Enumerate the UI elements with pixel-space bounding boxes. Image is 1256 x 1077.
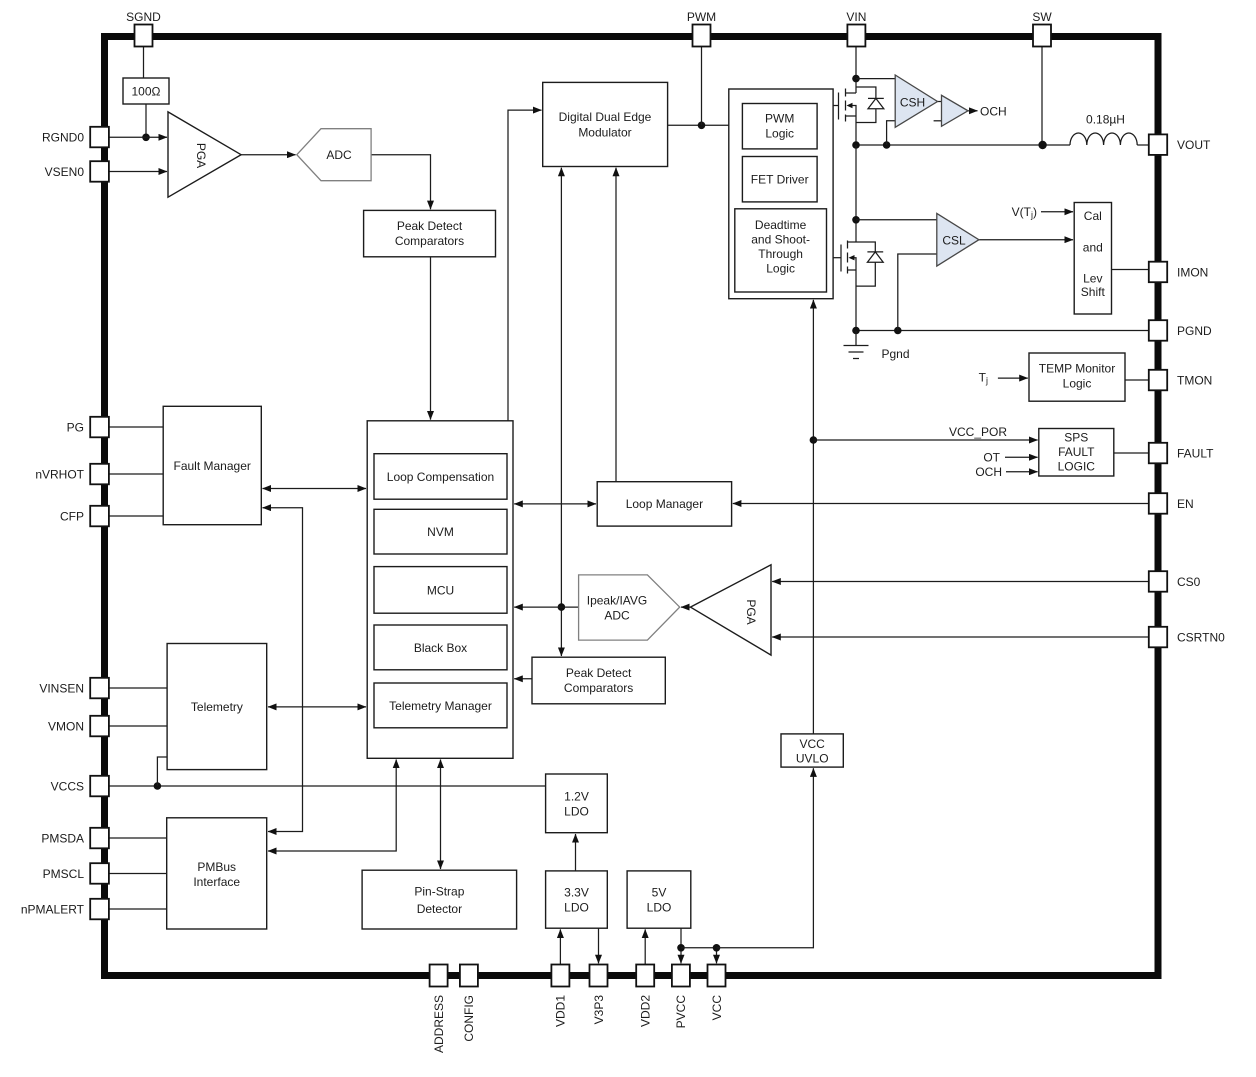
svg-text:Pin-Strap: Pin-Strap [414,885,464,899]
wire VSEN0 pin to PGA input [109,171,167,173]
wire 100ohm resistor to RGND0 net [145,104,147,137]
wire VINSEN pin to Telemetry [109,687,167,689]
pin CONFIG [460,965,478,1042]
svg-text:VCC: VCC [710,995,724,1021]
wire VDD1 pin to 3.3V LDO [559,929,561,964]
svg-text:CSRTN0: CSRTN0 [1177,630,1225,644]
svg-text:Comparators: Comparators [564,681,633,695]
pin IMON [1149,262,1209,283]
pin nVRHOT [35,464,109,485]
svg-text:PWM: PWM [687,10,716,24]
svg-text:LDO: LDO [564,805,589,819]
node inductor junction [1038,141,1046,149]
block Digital Dual Edge Modulator [543,82,668,166]
svg-text:LDO: LDO [647,901,672,915]
pin FAULT [1149,443,1214,464]
wire VCC branch to VCC pin [716,948,718,964]
wire PGA to Ipeak ADC [681,606,690,608]
svg-text:Modulator: Modulator [578,126,631,140]
svg-text:IMON: IMON [1177,265,1208,279]
node PWM junction [698,122,706,130]
svg-text:PGA: PGA [194,143,208,168]
wire 3.3V LDO to 1.2V LDO [575,834,577,871]
svg-text:NVM: NVM [427,525,454,539]
svg-text:PG: PG [67,420,84,434]
block Pin-Strap Detector [362,870,516,929]
pin SW [1032,10,1052,47]
node SW junction at FET [852,141,860,149]
op-amp PGA1 sense amplifier [168,112,241,197]
svg-text:CSL: CSL [942,234,966,248]
svg-text:TMON: TMON [1177,373,1212,387]
wire PVCC to VCC net [681,947,717,949]
svg-text:Telemetry: Telemetry [191,700,243,714]
pin VINSEN [39,678,109,699]
wire PWM pin drop [701,47,703,126]
svg-text:Digital Dual Edge: Digital Dual Edge [559,110,652,124]
transistor Q2 low-side MOSFET [833,241,856,331]
wire loop compensation up to modulator [508,110,542,421]
svg-text:Shift: Shift [1081,285,1106,299]
wire V(Tj) to Cal block [1041,211,1073,213]
svg-text:Detector: Detector [417,902,462,916]
svg-text:nPMALERT: nPMALERT [21,902,85,916]
block TEMP Monitor Logic [1029,353,1125,401]
node low-side source junction [852,327,860,335]
block Cal and Lev Shift [1074,203,1111,315]
block SPS FAULT LOGIC [1039,429,1114,477]
wire nPMALERT pin to PMBus Interface [109,908,167,910]
svg-text:VCC_POR: VCC_POR [949,425,1007,439]
wire CSL output to Cal block [979,239,1073,241]
wire PMSCL pin to PMBus Interface [109,873,167,875]
block 3.3V LDO [546,871,608,928]
svg-text:Logic: Logic [1063,377,1092,391]
node VCC_POR junction [810,436,818,444]
svg-text:CS0: CS0 [1177,575,1201,589]
block MCU [374,567,507,614]
node VCCS junction [154,782,162,790]
pin SGND [126,10,161,47]
diode D2 low-side body diode [856,242,883,286]
svg-text:PMSCL: PMSCL [43,867,85,881]
svg-text:Fault Manager: Fault Manager [174,459,251,473]
block Peak Detect Comparators (top) [364,210,496,256]
svg-text:PMBus: PMBus [197,860,236,874]
svg-text:Ipeak/IAVG: Ipeak/IAVG [587,594,647,608]
svg-text:TEMP Monitor: TEMP Monitor [1039,362,1115,376]
wire Fault Manager to core bidirectional [263,488,367,490]
svg-text:Telemetry Manager: Telemetry Manager [389,699,492,713]
wire VIN node to CSH input [856,78,895,80]
block FET Driver [742,157,817,202]
block PWM Logic [742,104,817,149]
svg-text:Logic: Logic [766,262,795,276]
svg-text:Lev: Lev [1083,272,1102,286]
pin PGND [1149,320,1212,341]
wire CSH output to buffer [938,101,942,103]
diode D1 high-side body diode [856,87,884,123]
svg-text:VSEN0: VSEN0 [45,165,85,179]
wire SGND pin to 100ohm resistor [143,47,145,79]
svg-text:PGA: PGA [744,599,758,624]
svg-text:Interface: Interface [193,875,240,889]
node CSL return junction [894,327,902,335]
svg-text:SGND: SGND [126,10,161,24]
svg-text:FAULT: FAULT [1177,446,1214,460]
block Telemetry [167,644,267,770]
svg-text:V3P3: V3P3 [592,995,606,1025]
svg-text:CSH: CSH [900,96,925,110]
wire buffer reference stub [934,120,942,122]
pin VMON [48,716,109,737]
svg-text:LDO: LDO [564,901,589,915]
pin RGND0 [42,127,109,148]
pin PVCC [672,965,690,1029]
resistor R1 100ohm [123,78,169,104]
svg-text:Deadtime: Deadtime [755,218,807,232]
wire Telemetry to Telemetry Manager bidirectional [268,706,366,708]
wire core to Pin-Strap Detector bidirectional [440,760,442,870]
op-amp U3 OCH buffer [942,95,969,126]
ADC U2 Ipeak/IAVG ADC [579,575,680,640]
ADC U1 voltage sense ADC [297,129,371,181]
wire OT to SPS fault logic [1005,456,1038,458]
wire nVRHOT pin to Fault Manager [109,473,163,475]
wire Fault Manager to PMBus Interface link [263,508,303,832]
pin VDD2 [636,965,654,1028]
pin PWM [687,10,716,47]
block Deadtime and Shoot-Through Logic [735,209,827,292]
svg-text:VCCS: VCCS [51,779,84,793]
block Loop Compensation [374,454,507,500]
block Telemetry Manager [374,683,507,728]
svg-text:0.18µH: 0.18µH [1086,113,1125,127]
svg-text:Pgnd: Pgnd [882,347,910,361]
block NVM [374,509,507,554]
wire VCCS net to 1.2V LDO [109,785,546,787]
transistor Q1 high-side MOSFET [833,89,856,146]
svg-text:V(Tj): V(Tj) [1012,205,1037,220]
svg-text:VDD2: VDD2 [639,995,653,1027]
svg-text:1.2V: 1.2V [564,790,589,804]
wire buffer output to OCH [968,110,978,112]
wire CSRTN0 pin to PGA [772,636,1149,638]
svg-text:and Shoot-: and Shoot- [751,233,810,247]
svg-text:Cal: Cal [1084,209,1102,223]
pin PG [67,417,109,438]
node CSH sense junction [883,141,891,149]
svg-text:PMSDA: PMSDA [41,831,84,845]
wire VMON pin to Telemetry [109,725,167,727]
wire VCC net to VCC UVLO [717,768,814,948]
wire core to PMBus Interface link [268,760,396,852]
wire SW node rail [856,144,1070,146]
block Loop Manager [597,482,731,526]
pin V3P3 [590,965,608,1025]
wire VDD2 pin to 5V LDO [644,929,646,964]
op-amp PGA2 current sense amplifier [690,565,771,655]
wire CFP pin to Fault Manager [109,515,163,517]
svg-text:OCH: OCH [980,104,1007,118]
pin CSRTN0 [1149,627,1225,648]
wire CSL input from phase node [856,219,937,221]
svg-text:ADDRESS: ADDRESS [432,995,446,1053]
wire Pgnd rail to PGND pin [856,330,1149,332]
block Peak Detect Comparators (bottom) [532,657,665,704]
svg-text:3.3V: 3.3V [564,886,589,900]
wire VCC_POR to SPS fault logic [813,439,1037,441]
block driver section outline [729,89,833,299]
wire Tj to TEMP monitor logic [998,377,1028,379]
pin VDD1 [551,965,569,1028]
pin PMSCL [43,863,109,884]
node RGND0 junction [142,134,150,142]
block 1.2V LDO [546,774,608,833]
svg-text:Peak Detect: Peak Detect [566,666,632,680]
block PMBus Interface [167,818,267,929]
wire core to Loop Manager bidirectional [514,503,596,505]
block Black Box [374,625,507,670]
svg-text:EN: EN [1177,497,1194,511]
svg-text:Black Box: Black Box [414,641,467,655]
svg-text:CFP: CFP [60,509,84,523]
pin EN [1149,493,1194,514]
svg-text:RGND0: RGND0 [42,130,84,144]
pin TMON [1149,370,1213,391]
wire core to modulator feedback (left riser) [560,168,562,656]
wire SPS fault logic to FAULT pin [1114,452,1149,454]
svg-text:FET Driver: FET Driver [751,173,809,187]
pin VSEN0 [45,161,109,182]
wire OCH to SPS fault logic [1006,471,1038,473]
pin nPMALERT [21,899,109,920]
chip boundary [105,37,1159,976]
pin VCC [708,965,726,1021]
svg-text:Peak Detect: Peak Detect [397,219,463,233]
block Fault Manager [163,406,261,524]
svg-text:VINSEN: VINSEN [39,681,84,695]
op-amp CSL current sense low [937,213,979,266]
pin PMSDA [41,828,109,849]
wire PMSDA pin to PMBus Interface [109,837,167,839]
svg-text:PVCC: PVCC [674,995,688,1029]
node riser junction [558,603,566,611]
pin VCCS [51,776,109,797]
svg-text:and: and [1083,241,1103,255]
wire PG pin to Fault Manager [109,426,163,428]
svg-text:OCH: OCH [975,465,1002,479]
svg-text:Comparators: Comparators [395,234,464,248]
svg-text:Loop Manager: Loop Manager [626,497,703,511]
svg-text:VCC: VCC [800,737,826,751]
svg-text:UVLO: UVLO [796,752,829,766]
wire ADC to Peak Detect Comparators [371,155,430,210]
node VIN junction [852,75,860,83]
node VCC junction [713,944,721,952]
svg-text:ADC: ADC [326,148,352,162]
svg-text:Through: Through [758,247,803,261]
pin VIN [846,10,866,47]
block VCC UVLO [781,734,843,767]
svg-text:Loop Compensation: Loop Compensation [387,470,494,484]
wire Peak Detect Comparators to controller core [430,257,432,420]
node PVCC junction [677,944,685,952]
wire CSL lower input to Pgnd [898,254,937,331]
svg-text:FAULT: FAULT [1058,445,1095,459]
wire VCCS branch to Telemetry [157,757,167,786]
wire 5V LDO to PVCC pin [680,928,682,963]
svg-text:PGND: PGND [1177,324,1212,338]
pin VOUT [1149,134,1211,155]
op-amp CSH current sense high [895,75,937,127]
wire Peak Detect Comparators to core [514,678,532,680]
pin ADDRESS [430,965,448,1054]
svg-text:LOGIC: LOGIC [1058,460,1096,474]
wire 3.3V LDO to V3P3 pin [598,928,600,963]
block 5V LDO [627,871,691,928]
wire Loop Manager to modulator (right riser) [615,168,617,482]
pin CFP [60,506,109,527]
svg-text:100Ω: 100Ω [132,85,161,99]
ground Pgnd symbol [844,331,869,359]
block controller core outline [367,421,513,759]
wire VCC UVLO to deadtime logic riser [812,300,814,734]
wire TEMP monitor logic to TMON pin [1125,379,1149,381]
svg-text:5V: 5V [652,886,667,900]
wire modulator output to PWM logic [668,124,743,126]
svg-text:nVRHOT: nVRHOT [35,467,84,481]
node CSL input junction [852,216,860,224]
svg-text:VOUT: VOUT [1177,138,1211,152]
wire CS0 pin to PGA [772,581,1149,583]
svg-text:SPS: SPS [1064,431,1088,445]
svg-text:VIN: VIN [846,10,866,24]
svg-text:ADC: ADC [604,609,630,623]
svg-text:MCU: MCU [427,584,454,598]
wire EN pin to Loop Manager [733,503,1149,505]
wire PGA output to ADC [241,154,296,156]
wire CSH lower input to SW node [887,121,896,145]
wire Cal block to IMON pin [1112,269,1149,271]
wire SW node to low-side drain [855,145,857,242]
svg-text:Logic: Logic [765,127,794,141]
svg-text:VDD1: VDD1 [554,995,568,1027]
svg-text:VMON: VMON [48,719,84,733]
wire SW pin drop [1041,47,1043,146]
wire RGND0 pin to PGA input [109,136,167,138]
wire VIN pin to high-side drain [855,47,857,94]
pin CS0 [1149,571,1201,592]
svg-text:SW: SW [1032,10,1052,24]
svg-text:PWM: PWM [765,112,794,126]
svg-text:CONFIG: CONFIG [462,995,476,1042]
inductor L1 0.18uH [1070,133,1149,145]
svg-text:OT: OT [983,451,1000,465]
wire Ipeak ADC to MCU [514,606,578,608]
